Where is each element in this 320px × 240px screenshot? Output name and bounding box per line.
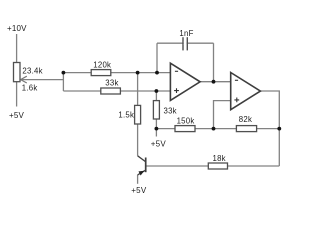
svg-text:+5V: +5V bbox=[151, 139, 167, 148]
white gap between capacitor plates bbox=[184, 42, 187, 45]
op-amp U2 bbox=[231, 73, 261, 110]
potentiometer wiper arrow bbox=[21, 76, 27, 83]
junction node 82k right bbox=[277, 127, 281, 131]
wire U2 non-inverting input branch bbox=[214, 101, 231, 129]
junction node 33k vertical top bbox=[155, 89, 159, 93]
junction node cap left bbox=[155, 71, 159, 75]
resistor 33k vertical bbox=[153, 101, 159, 119]
wire top row to op-amp U1 inverting input bbox=[63, 72, 170, 74]
wire pot bottom to +5V bbox=[16, 82, 18, 107]
wire capacitor left vertical bbox=[156, 43, 158, 72]
wire 1.5k branch down to transistor collector bbox=[137, 73, 139, 156]
svg-text:150k: 150k bbox=[177, 116, 195, 125]
svg-text:18k: 18k bbox=[213, 154, 226, 163]
resistor 33k horizontal bbox=[101, 88, 121, 94]
svg-text:1.6k: 1.6k bbox=[22, 83, 38, 92]
wire vertical link at x=63.4 bbox=[62, 73, 64, 91]
resistor 120k bbox=[91, 70, 111, 76]
wire U1 output to U2 inverting input bbox=[200, 81, 231, 83]
resistor 1.5k vertical bbox=[135, 105, 141, 124]
wire 18k row to transistor base bbox=[146, 165, 279, 167]
junction node U1 output bbox=[212, 80, 216, 84]
wire capacitor top rail bbox=[157, 42, 214, 44]
wire wiper horizontal bbox=[21, 79, 63, 81]
resistor 82k bbox=[236, 126, 256, 132]
svg-text:33k: 33k bbox=[164, 107, 177, 116]
svg-text:33k: 33k bbox=[105, 78, 118, 87]
svg-text:82k: 82k bbox=[239, 115, 252, 124]
svg-text:1nF: 1nF bbox=[179, 29, 193, 38]
op-amp U1 plus sign bbox=[174, 88, 179, 93]
resistor 18k bbox=[208, 163, 227, 169]
potentiometer 23.4k/1.6k body bbox=[14, 63, 21, 82]
wire capacitor right vertical to U1 output bbox=[213, 43, 215, 81]
junction node +5V row left bbox=[155, 127, 159, 131]
wire transistor emitter to +5V bbox=[137, 175, 139, 184]
transistor Q1 emitter arrow (PNP) bbox=[139, 171, 145, 176]
wire 33k vertical branch to +5V bbox=[155, 91, 157, 137]
svg-text:+5V: +5V bbox=[9, 111, 25, 120]
svg-text:+10V: +10V bbox=[7, 24, 27, 33]
capacitor 1nF plates bbox=[183, 37, 187, 50]
wire U2 output feedback down right side bbox=[260, 91, 279, 166]
op-amp U1 minus sign bbox=[175, 70, 178, 72]
op-amp U1 bbox=[170, 63, 200, 100]
wire 150k/82k row bbox=[156, 128, 279, 130]
resistor 150k bbox=[175, 126, 195, 132]
svg-text:23.4k: 23.4k bbox=[22, 66, 42, 75]
transistor Q1 emitter diagonal bbox=[138, 170, 146, 175]
wire from +10V to pot top bbox=[16, 34, 18, 63]
junction node 150k/82k bbox=[212, 127, 216, 131]
svg-text:1.5k: 1.5k bbox=[118, 110, 134, 119]
wire bottom row to op-amp U1 non-inverting input bbox=[63, 90, 170, 92]
op-amp U2 plus sign bbox=[234, 98, 239, 103]
transistor Q1 collector diagonal bbox=[138, 156, 146, 162]
transistor Q1 (PNP) base bar bbox=[145, 158, 147, 173]
svg-text:120k: 120k bbox=[93, 60, 111, 69]
op-amp U2 minus sign bbox=[235, 79, 238, 81]
junction node 1.5k top bbox=[136, 71, 140, 75]
svg-text:+5V: +5V bbox=[131, 186, 147, 195]
junction node pot link bbox=[62, 71, 66, 75]
